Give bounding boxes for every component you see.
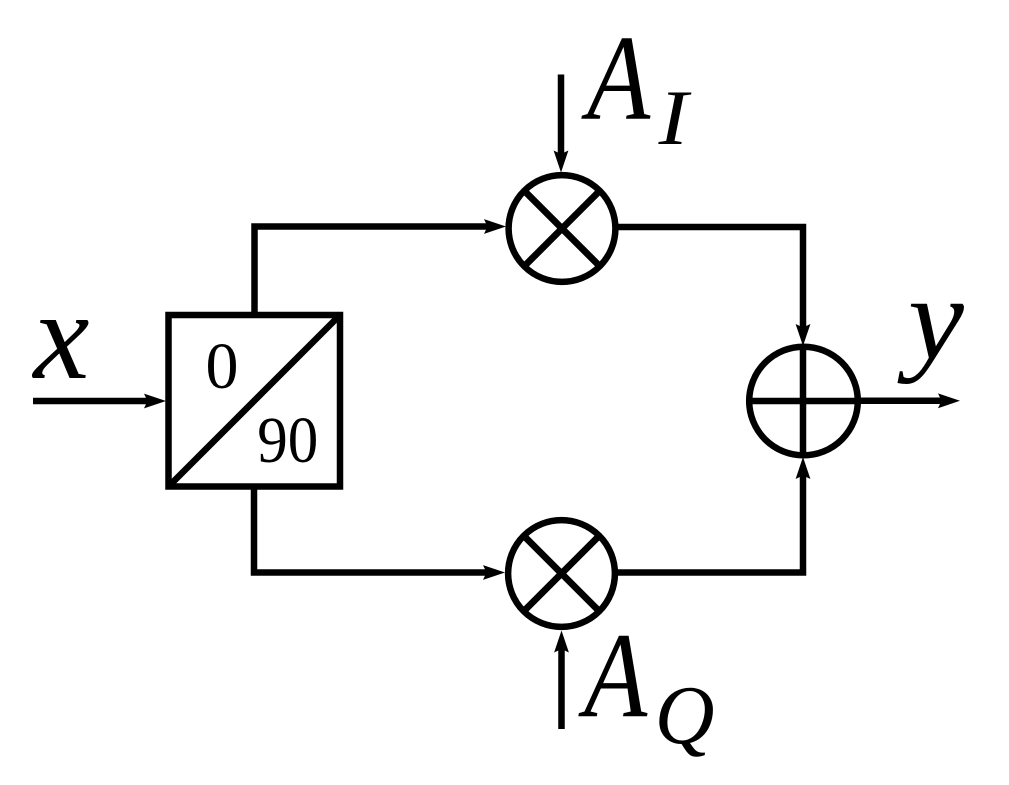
phase splitter box 0/90 — [168, 314, 341, 487]
output wire y — [860, 393, 960, 408]
svg-text:A: A — [581, 11, 652, 146]
svg-text:90: 90 — [257, 404, 318, 477]
label A_Q — [578, 609, 715, 762]
svg-text:x: x — [32, 267, 90, 406]
svg-text:y: y — [897, 254, 965, 385]
multiplier top — [509, 175, 616, 282]
summer — [746, 345, 861, 457]
svg-text:I: I — [658, 76, 692, 162]
wire top multiplier to summer — [617, 227, 810, 346]
label A_I — [581, 11, 692, 162]
wire A_I input — [554, 75, 569, 173]
wire bottom multiplier to summer — [617, 457, 810, 573]
svg-text:A: A — [578, 609, 649, 744]
wire box top to top multiplier — [255, 219, 507, 314]
input wire x — [33, 394, 166, 409]
svg-text:0: 0 — [206, 330, 239, 403]
wire box bottom to bottom multiplier — [254, 486, 505, 580]
svg-text:Q: Q — [655, 669, 715, 762]
multiplier bottom — [508, 520, 615, 627]
wire A_Q input — [554, 631, 569, 730]
